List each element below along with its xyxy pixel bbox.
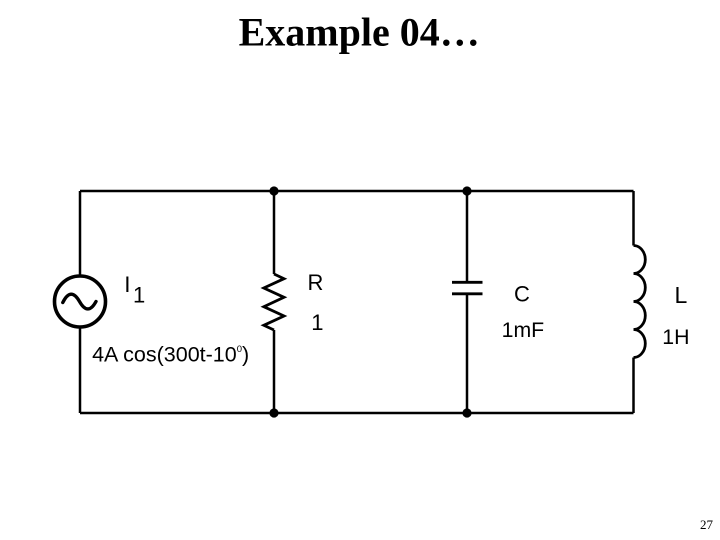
- svg-text:1mF: 1mF: [502, 318, 545, 342]
- svg-text:R: R: [308, 270, 324, 295]
- svg-text:L: L: [675, 282, 688, 308]
- inductor L: [634, 246, 646, 358]
- node dot top-left (R top junction): [269, 186, 278, 195]
- wire capacitor branch bottom: [466, 295, 469, 413]
- svg-text:C: C: [514, 282, 530, 307]
- wire inductor branch top: [632, 191, 635, 246]
- wire top: [80, 190, 634, 193]
- svg-text:1: 1: [311, 310, 323, 335]
- wire resistor branch top: [273, 191, 276, 274]
- node dot bottom-right (C bottom junction): [462, 408, 471, 417]
- node dot bottom-left (R bottom junction): [269, 408, 278, 417]
- svg-text:Example 04…: Example 04…: [239, 9, 480, 54]
- svg-text:I: I: [124, 272, 130, 297]
- svg-text:1: 1: [133, 282, 145, 307]
- label I1: [124, 272, 145, 307]
- current source I1: [55, 276, 106, 327]
- svg-text:27: 27: [700, 517, 714, 532]
- resistor R: [264, 274, 284, 330]
- capacitor C: [452, 282, 483, 294]
- node dot top-right (C top junction): [462, 186, 471, 195]
- svg-text:4A cos(300t-100): 4A cos(300t-100): [92, 343, 249, 367]
- wire resistor branch bottom: [273, 330, 276, 413]
- wire inductor branch bottom: [632, 358, 635, 414]
- wire left (source branch): [79, 191, 82, 413]
- wire capacitor branch top: [466, 191, 469, 281]
- wire bottom: [80, 412, 634, 415]
- svg-text:1H: 1H: [662, 325, 689, 349]
